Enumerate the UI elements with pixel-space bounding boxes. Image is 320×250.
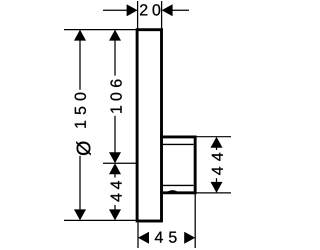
dim 150: digit 1 <box>75 121 86 128</box>
housing inner line upper <box>163 143 194 145</box>
dim 45: left arrow <box>138 232 149 244</box>
valve housing right edge <box>194 136 197 195</box>
plate bottom extension line <box>64 219 137 221</box>
dim 20: right arrow <box>162 4 173 16</box>
dim 106: upper line segment <box>114 40 116 76</box>
dim 20: left extension line <box>137 1 139 29</box>
dim 45: right arrow <box>184 232 195 244</box>
escutcheon plate (side view) <box>137 30 161 221</box>
dim 44 right: bottom arrow <box>211 182 223 193</box>
dim 20: right extension line <box>161 1 163 29</box>
dim 44 right: top arrow <box>211 137 223 148</box>
valve housing bottom edge <box>160 191 196 194</box>
plate top extension line <box>64 29 137 31</box>
dim 20: digit 2 <box>140 4 147 15</box>
dim 45: right extension line <box>194 194 196 248</box>
dim 20: digit 0 <box>153 4 161 15</box>
dim 44 right: upper line segment <box>216 148 218 151</box>
dim 106: digit 6 <box>110 80 121 87</box>
dim 106: bottom arrow <box>109 152 121 163</box>
dim 20: left arrow <box>127 4 138 16</box>
dim 45: digit 4 <box>155 232 163 243</box>
dim 150: digit 5 <box>75 107 86 115</box>
dim 44 right: lower digit 4 <box>212 167 223 175</box>
dim 44 right: top extension line <box>196 136 231 138</box>
dim 44 left: bottom arrow <box>109 209 121 220</box>
housing bottom notch <box>168 191 177 192</box>
dim 150: lower line segment <box>79 156 81 210</box>
dim 45: left extension line <box>137 223 139 248</box>
dim 20: right tail <box>172 9 189 11</box>
valve centre reference line <box>103 162 137 164</box>
valve housing top edge <box>160 135 196 138</box>
housing inner line lower <box>163 184 194 186</box>
dim 44 left: upper line segment <box>114 174 116 178</box>
dim 44 left: top arrow <box>109 163 121 174</box>
dim 150: top arrow <box>74 30 86 41</box>
dim 150: diameter symbol <box>76 141 90 155</box>
dim 106: digit 0 <box>110 93 121 101</box>
dim 44 right: bottom extension line <box>196 192 231 194</box>
dim 44 left: upper digit 4 <box>111 181 122 189</box>
dim 106: digit 1 <box>111 106 122 113</box>
dim 150: upper line segment <box>79 40 81 90</box>
dim 106: lower line segment <box>114 116 116 153</box>
dim 44 left: lower digit 4 <box>111 194 122 202</box>
dim 44 right: lower line segment <box>216 178 218 182</box>
dim 44 right: upper digit 4 <box>212 153 223 161</box>
dim 150: digit 0 <box>75 93 86 101</box>
dim 150: bottom arrow <box>74 209 86 220</box>
dim 20: left tail <box>103 9 127 11</box>
dim 106: top arrow <box>109 30 121 41</box>
dim 45: digit 5 <box>169 232 177 243</box>
dim 44 left: lower line segment <box>114 205 116 210</box>
